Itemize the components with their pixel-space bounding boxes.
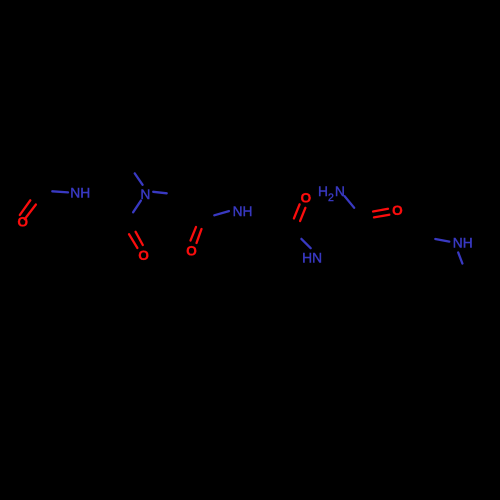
svg-text:O: O: [300, 190, 311, 205]
svg-text:O: O: [392, 203, 403, 218]
left carbonyl C=O double bond red half: [129, 232, 143, 248]
formyl C=O double bond red half: [20, 200, 36, 219]
svg-text:O: O: [138, 248, 149, 263]
svg-text:HN: HN: [302, 251, 322, 266]
svg-text:NH: NH: [70, 186, 90, 201]
amide C-NH bond blue half: [214, 211, 229, 215]
svg-text:O: O: [17, 215, 28, 230]
svg-text:NH: NH: [233, 204, 253, 219]
proline N bond right blue half: [153, 192, 167, 194]
svg-text:N: N: [140, 187, 150, 202]
proline N bond up-left blue half: [135, 173, 143, 184]
proline amide C=O double bond red half: [191, 227, 202, 243]
svg-text:NH: NH: [453, 235, 473, 250]
indole NH-C2 bond blue half: [458, 253, 462, 264]
glycine C=O double bond red half: [294, 204, 306, 221]
svg-text:O: O: [186, 244, 197, 259]
H2N-C bond blue half: [345, 196, 355, 208]
primary amide C=O double bond red half: [373, 209, 389, 218]
indole C7a-NH bond blue half: [435, 239, 449, 242]
formyl C-N bond blue half: [52, 191, 68, 192]
proline N bond down-left blue half: [133, 201, 141, 213]
carbonyl C-HN bond blue half: [301, 239, 310, 248]
